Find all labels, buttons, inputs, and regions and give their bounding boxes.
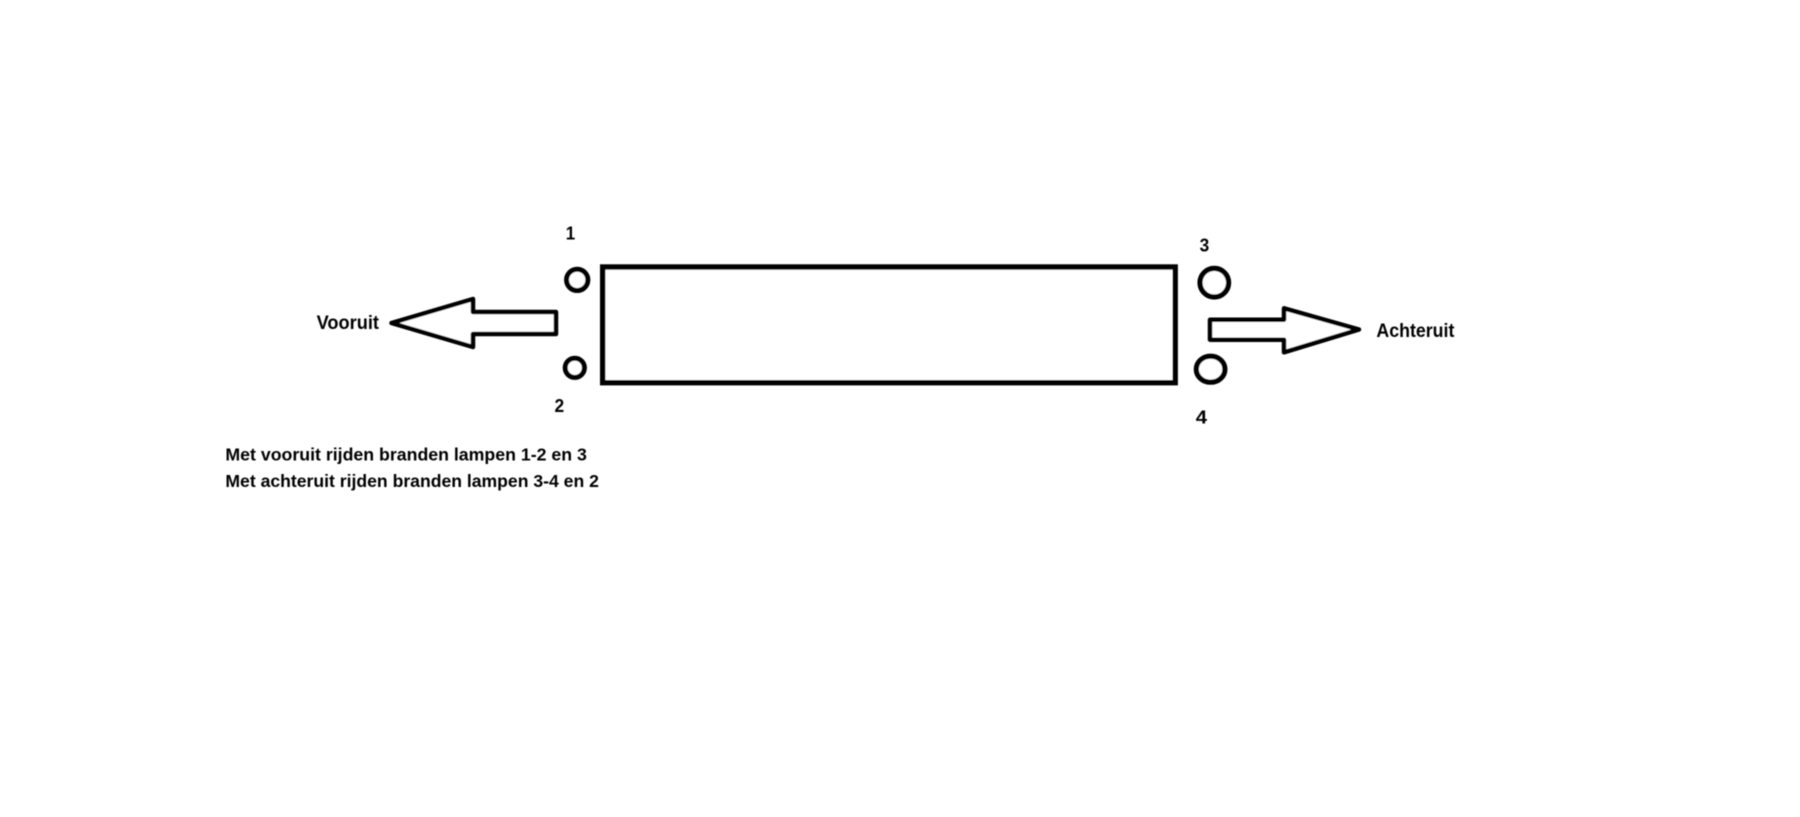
svg-text:Met achteruit rijden branden l: Met achteruit rijden branden lampen 3-4 … bbox=[225, 471, 599, 491]
svg-text:2: 2 bbox=[555, 396, 565, 416]
svg-text:3: 3 bbox=[1200, 235, 1210, 255]
svg-text:4: 4 bbox=[1196, 408, 1207, 428]
svg-text:Achteruit: Achteruit bbox=[1376, 320, 1454, 342]
svg-text:Vooruit: Vooruit bbox=[317, 312, 380, 334]
svg-text:Met vooruit rijden branden lam: Met vooruit rijden branden lampen 1-2 en… bbox=[225, 445, 587, 465]
svg-text:1: 1 bbox=[566, 224, 575, 244]
